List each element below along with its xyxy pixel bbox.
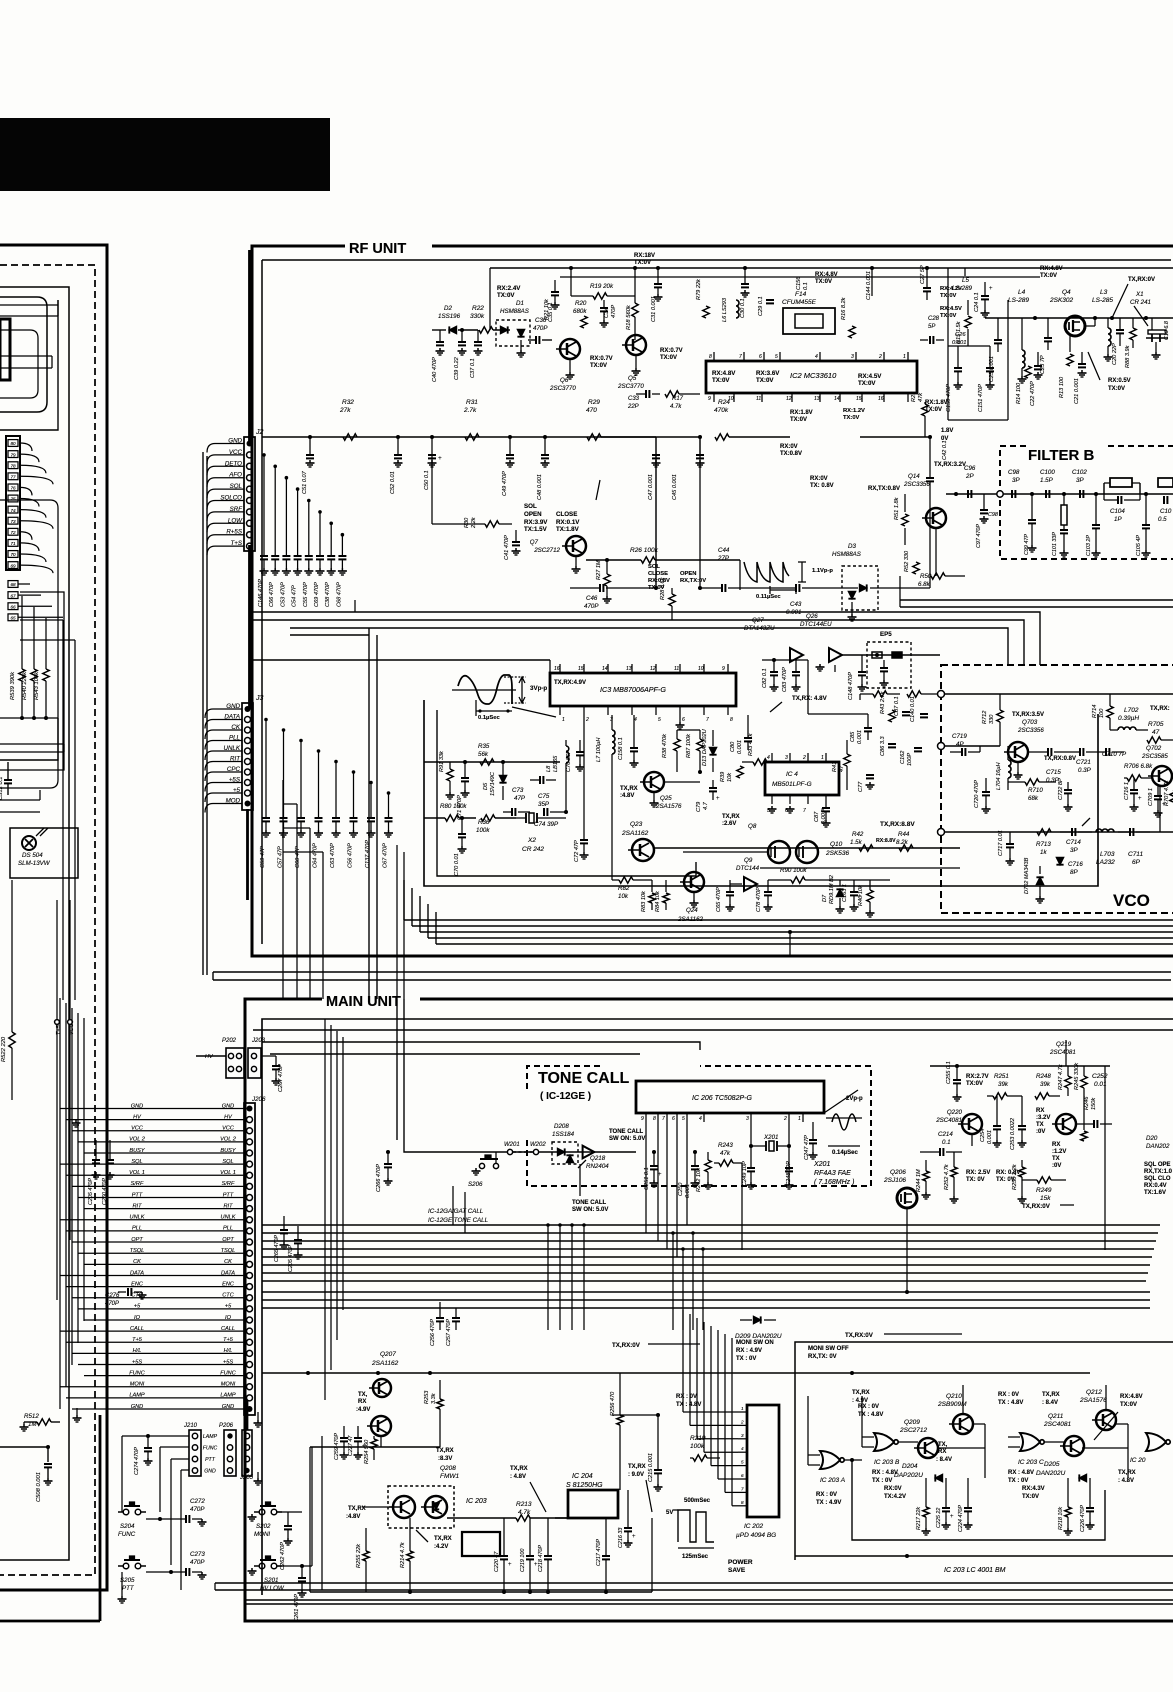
- svg-text:RX:0.5V: RX:0.5V: [1108, 378, 1131, 384]
- switch S202 MONI: [259, 1509, 265, 1515]
- wire H/L: [72, 1352, 244, 1354]
- svg-text:0.001: 0.001: [857, 730, 863, 744]
- wire: [55, 1020, 60, 1025]
- wire ENC: [66, 1286, 244, 1288]
- ground: [23, 1424, 25, 1427]
- svg-text:39k: 39k: [1040, 1081, 1051, 1088]
- svg-text:14: 14: [602, 666, 608, 672]
- svg-text:16: 16: [554, 666, 560, 672]
- svg-text:C709 1: C709 1: [1148, 788, 1154, 806]
- svg-text:Q703: Q703: [1022, 719, 1038, 726]
- svg-text:66: 66: [10, 604, 16, 609]
- svg-text:TX : 0V: TX : 0V: [872, 1478, 892, 1484]
- svg-text:10k: 10k: [618, 893, 629, 900]
- svg-text:15: 15: [856, 396, 862, 402]
- svg-text:VOL 1: VOL 1: [220, 1170, 236, 1176]
- wire: [207, 489, 215, 498]
- svg-text:SW ON: 5.0V: SW ON: 5.0V: [572, 1207, 608, 1213]
- svg-text:47: 47: [1152, 729, 1160, 736]
- svg-text:C59 47P: C59 47P: [260, 846, 266, 868]
- svg-text:100k: 100k: [476, 827, 490, 834]
- svg-text:125mSec: 125mSec: [682, 1554, 709, 1560]
- svg-text:2SC3770: 2SC3770: [549, 385, 576, 392]
- svg-text:D2: D2: [444, 305, 452, 312]
- svg-text:C719: C719: [952, 733, 967, 740]
- resistor R15 1.5k: [965, 316, 971, 328]
- svg-text:13: 13: [814, 396, 820, 402]
- MAIN UNIT border: [245, 999, 1173, 1621]
- wire PLL: [66, 1230, 244, 1232]
- svg-text:RX : 0V: RX : 0V: [998, 1392, 1019, 1398]
- wire: [762, 659, 808, 661]
- svg-text:IC 204: IC 204: [572, 1473, 593, 1480]
- svg-text:RX:4.5V: RX:4.5V: [858, 373, 882, 380]
- svg-text:RX:3.6V: RX:3.6V: [756, 370, 780, 377]
- svg-text:C227 47: C227 47: [348, 1435, 354, 1456]
- svg-text:11: 11: [756, 396, 761, 402]
- svg-text:1: 1: [903, 354, 906, 360]
- svg-text::8.3V: :8.3V: [438, 1456, 452, 1462]
- wire: [205, 783, 213, 792]
- svg-text:TX,RX:0V: TX,RX:0V: [1128, 277, 1155, 283]
- svg-text:7: 7: [662, 1116, 665, 1122]
- svg-text:RX : 0V: RX : 0V: [816, 1492, 837, 1498]
- svg-text:C137 470P: C137 470P: [365, 840, 371, 868]
- svg-text:RX:0V: RX:0V: [780, 444, 798, 450]
- svg-text:0.1: 0.1: [803, 282, 809, 290]
- svg-text:C148 470P: C148 470P: [848, 672, 854, 700]
- ground: [251, 1514, 253, 1517]
- svg-text:UNLK: UNLK: [221, 1215, 236, 1221]
- svg-text:R18 560k: R18 560k: [626, 304, 632, 330]
- svg-text:IC 202: IC 202: [744, 1523, 764, 1530]
- svg-text:CALL: CALL: [221, 1326, 235, 1332]
- svg-text:C254: C254: [980, 1129, 986, 1142]
- svg-text:RX:4.3V: RX:4.3V: [1022, 1486, 1045, 1492]
- svg-text:47k: 47k: [720, 1150, 731, 1157]
- svg-text:C28: C28: [928, 316, 940, 322]
- svg-text:3Vp-p: 3Vp-p: [530, 685, 547, 692]
- svg-text:R705: R705: [1148, 721, 1164, 728]
- filter ladder wire: [997, 491, 1003, 497]
- wire: [205, 772, 213, 781]
- svg-text:: 8.4V: : 8.4V: [1042, 1400, 1058, 1406]
- svg-text:C86 3.3: C86 3.3: [880, 736, 886, 756]
- svg-text:R712: R712: [982, 710, 988, 724]
- wire TSQL: [78, 1252, 244, 1254]
- wire bottom rail: [310, 1591, 652, 1593]
- svg-text:DS 504: DS 504: [22, 852, 43, 859]
- svg-text:CK: CK: [133, 1259, 141, 1265]
- svg-text:VOL 1: VOL 1: [129, 1170, 145, 1176]
- svg-text:RX,TX:0V: RX,TX:0V: [680, 578, 706, 584]
- svg-text:R246: R246: [1084, 1096, 1090, 1110]
- wire row: [262, 436, 656, 438]
- svg-text:C220 47: C220 47: [494, 1551, 500, 1572]
- wire: [739, 560, 741, 590]
- wire: [20, 532, 32, 540]
- svg-text:Q220: Q220: [947, 1109, 963, 1116]
- svg-text:C42 0.1: C42 0.1: [942, 440, 948, 460]
- wire: [214, 1583, 216, 1590]
- IC202 pins: [738, 1411, 747, 1413]
- wire: [18, 605, 52, 607]
- capacitor C42 0.1: [929, 437, 931, 478]
- svg-text:TX:0V: TX:0V: [1040, 273, 1057, 279]
- svg-text:+: +: [438, 455, 442, 462]
- svg-text:C87 0.1: C87 0.1: [894, 696, 900, 716]
- svg-text:C19 6.8: C19 6.8: [1164, 321, 1170, 340]
- switch S201 HI/LOW: [259, 1563, 265, 1569]
- svg-text:+: +: [716, 796, 720, 802]
- wire: [20, 510, 46, 518]
- NOR gate IC203 D partial: [1146, 1433, 1166, 1451]
- svg-text:C41 470P: C41 470P: [504, 535, 510, 560]
- wire GND: [60, 1108, 244, 1110]
- svg-text:R29: R29: [588, 399, 600, 406]
- svg-text:L704 16µH: L704 16µH: [996, 762, 1002, 790]
- svg-text:C22 470P: C22 470P: [1030, 381, 1036, 406]
- svg-text:R245 330k: R245 330k: [1074, 1062, 1080, 1090]
- svg-text:LAMP: LAMP: [129, 1393, 145, 1399]
- svg-text:Q6: Q6: [560, 377, 569, 384]
- wire: [207, 466, 215, 475]
- wire: [18, 594, 41, 596]
- svg-text:RX: RX: [358, 1399, 366, 1405]
- svg-text:C10: C10: [1160, 508, 1172, 515]
- wire: [253, 659, 550, 661]
- svg-text:R19 20k: R19 20k: [590, 283, 614, 290]
- svg-text:D20: D20: [1146, 1135, 1158, 1142]
- svg-text:8: 8: [730, 717, 733, 723]
- svg-text:C43: C43: [790, 601, 802, 608]
- svg-text:C158 0.1: C158 0.1: [618, 737, 624, 760]
- svg-text:R251: R251: [994, 1073, 1009, 1080]
- svg-text:C31 0.001: C31 0.001: [651, 296, 657, 322]
- transistor Q221 2SC4081: [1056, 1114, 1076, 1134]
- wire: [205, 793, 213, 802]
- svg-text:2: 2: [740, 1419, 744, 1424]
- IC203 box: [462, 1532, 500, 1556]
- svg-text:2SC2712: 2SC2712: [899, 1427, 927, 1434]
- svg-text:R543 100k: R543 100k: [34, 671, 40, 700]
- wire: [699, 437, 701, 588]
- resistor R539 390k: [19, 669, 25, 681]
- capacitor C261 470P: [301, 1566, 303, 1578]
- resistor R18 560k: [632, 303, 638, 317]
- svg-text:9: 9: [641, 1116, 644, 1122]
- svg-text:2SC3585: 2SC3585: [1141, 753, 1168, 760]
- svg-text:C82 0.1: C82 0.1: [762, 668, 768, 688]
- svg-text:C250: C250: [678, 1182, 684, 1196]
- bus wires bottom: [215, 1582, 1173, 1584]
- svg-text:HV: HV: [205, 1054, 214, 1060]
- svg-text:TX,RX:3.2V: TX,RX:3.2V: [934, 462, 966, 468]
- svg-text:CFUM455E: CFUM455E: [782, 299, 817, 306]
- svg-text:TX,RX:4.9V: TX,RX:4.9V: [554, 680, 586, 686]
- capacitor C265 470P: [283, 1216, 285, 1230]
- svg-text:R540 220k: R540 220k: [22, 671, 28, 700]
- RF inner top rail: [490, 267, 1173, 269]
- svg-text:R83 10k: R83 10k: [641, 890, 647, 912]
- svg-text:S/RF: S/RF: [222, 1181, 235, 1187]
- svg-text::3.2V: :3.2V: [1036, 1115, 1050, 1121]
- IC2 pins top: [713, 352, 715, 361]
- svg-text:SAVE: SAVE: [728, 1567, 746, 1574]
- capacitor C156 0.1: [743, 266, 747, 270]
- resistor R14 100: [1025, 366, 1031, 378]
- wire: [808, 713, 868, 715]
- transistor Q24 2SA1162: [684, 872, 704, 892]
- svg-text:GND: GND: [222, 1103, 234, 1109]
- waveform 1.1Vp-p: [744, 562, 789, 582]
- svg-text::2.6V: :2.6V: [722, 821, 736, 827]
- svg-text:TX : 4.9V: TX : 4.9V: [816, 1500, 841, 1506]
- svg-text:R707 4.7k: R707 4.7k: [1164, 779, 1170, 806]
- wire +5: [78, 1308, 244, 1310]
- wire: [677, 729, 700, 731]
- svg-text:0.1µSec: 0.1µSec: [478, 715, 500, 721]
- svg-text:4P: 4P: [956, 741, 964, 748]
- wire: [205, 730, 213, 739]
- svg-text:X1: X1: [1135, 291, 1144, 298]
- capacitor C49 470P: [509, 437, 511, 455]
- capacitor C144 0.001: [870, 266, 874, 270]
- svg-text:C261 470P: C261 470P: [294, 1594, 300, 1622]
- svg-text:HI/ LOW: HI/ LOW: [260, 1585, 285, 1592]
- svg-text:TX:0V: TX:0V: [590, 363, 607, 369]
- svg-text:470P: 470P: [533, 325, 548, 332]
- svg-text:TX,RX:: TX,RX:: [1150, 706, 1170, 712]
- svg-text:µPD 4094 BG: µPD 4094 BG: [736, 1532, 776, 1539]
- svg-text:D5: D5: [483, 782, 489, 790]
- svg-text:( IC-12GE ): ( IC-12GE ): [540, 1091, 591, 1102]
- wire bundle left of J206: [59, 998, 61, 1409]
- svg-text:C101 33P: C101 33P: [1052, 532, 1058, 556]
- TONE CALL dashed box: [527, 1066, 600, 1093]
- svg-text:8P: 8P: [1070, 869, 1078, 876]
- VCO dashed box: [941, 665, 1173, 913]
- svg-text:7: 7: [706, 717, 709, 723]
- svg-text:R35: R35: [478, 743, 490, 750]
- resistor R88 3.9k: [1130, 328, 1136, 340]
- svg-text:Q207: Q207: [380, 1351, 396, 1358]
- wire: [795, 1555, 1173, 1557]
- svg-text:D209 DAN202U: D209 DAN202U: [735, 1333, 782, 1340]
- svg-text:RX:2.4V: RX:2.4V: [497, 285, 521, 292]
- capacitor C48 0.001: [544, 437, 546, 455]
- svg-text:C40 470P: C40 470P: [432, 357, 438, 382]
- svg-text:C218 470P: C218 470P: [538, 1545, 544, 1572]
- svg-text:2: 2: [585, 717, 589, 723]
- svg-text:TX,: TX,: [358, 1392, 368, 1398]
- svg-text:C73: C73: [512, 787, 524, 794]
- svg-text:79: 79: [10, 452, 16, 457]
- svg-text:EP5: EP5: [880, 631, 892, 638]
- wire: [859, 694, 861, 700]
- svg-text:1: 1: [821, 755, 824, 761]
- wire drops IC206: [645, 1122, 647, 1233]
- svg-text:IC 206 TC5082P-G: IC 206 TC5082P-G: [692, 1095, 752, 1102]
- wire CALL: [60, 1330, 244, 1332]
- svg-text:C163 1: C163 1: [842, 884, 848, 902]
- svg-text:C146 470P: C146 470P: [258, 579, 264, 607]
- svg-text:TX:0V: TX:0V: [712, 377, 730, 384]
- svg-text:C50 0.1: C50 0.1: [424, 470, 430, 490]
- wire: [205, 762, 213, 771]
- left unit dashed inner border: [0, 265, 95, 1575]
- svg-text:R26 100k: R26 100k: [630, 547, 659, 554]
- capacitor C105 4P: [1144, 492, 1148, 496]
- wire loop bottom: [852, 1460, 1105, 1540]
- svg-text:CLOSE: CLOSE: [556, 511, 577, 518]
- svg-text:8: 8: [709, 354, 712, 360]
- svg-text:RX:0.1V: RX:0.1V: [556, 519, 580, 526]
- svg-text:3: 3: [741, 1433, 744, 1438]
- svg-text:PTT: PTT: [132, 1192, 143, 1198]
- svg-text:D205: D205: [1044, 1461, 1060, 1468]
- svg-text:470P: 470P: [190, 1506, 205, 1513]
- svg-text:7: 7: [739, 354, 742, 360]
- svg-text:1.1Vp-p: 1.1Vp-p: [812, 568, 833, 574]
- svg-text:Q14: Q14: [908, 473, 920, 480]
- svg-text:IC-12GE TONE CALL: IC-12GE TONE CALL: [428, 1217, 489, 1224]
- svg-text:LAMP: LAMP: [203, 1434, 218, 1440]
- svg-text:GND: GND: [131, 1404, 143, 1410]
- svg-text:6: 6: [759, 354, 762, 360]
- wire: [18, 616, 63, 618]
- wire: [205, 741, 213, 750]
- svg-text:MAIN UNIT: MAIN UNIT: [326, 994, 401, 1010]
- capacitor C53 470P: [285, 478, 287, 556]
- svg-text:RIT: RIT: [132, 1203, 142, 1209]
- RF UNIT border: [252, 246, 1173, 956]
- svg-text:C156: C156: [796, 276, 802, 290]
- wire: [20, 487, 32, 495]
- svg-text:150k: 150k: [1091, 1097, 1097, 1110]
- svg-text:C716: C716: [1068, 861, 1083, 868]
- svg-text:CTC: CTC: [222, 1293, 234, 1299]
- svg-text:TX,RX: TX,RX: [620, 786, 638, 792]
- svg-text:C37 0.1: C37 0.1: [470, 358, 476, 378]
- svg-text:68: 68: [10, 582, 16, 587]
- svg-text:2SA1162: 2SA1162: [371, 1360, 399, 1367]
- svg-text:H/L: H/L: [133, 1348, 142, 1354]
- svg-text:R32: R32: [342, 399, 354, 406]
- svg-text:TX,RX: TX,RX: [1118, 1470, 1136, 1476]
- svg-text:D208: D208: [554, 1123, 569, 1130]
- svg-text:R40 10k: R40 10k: [858, 884, 864, 906]
- svg-text:R522 220: R522 220: [1, 1036, 7, 1062]
- capacitor C151 470P: [989, 346, 991, 368]
- svg-text:MONI: MONI: [221, 1382, 236, 1388]
- svg-text:CLOSE: CLOSE: [648, 571, 668, 577]
- svg-text:DAN202: DAN202: [1146, 1143, 1170, 1150]
- svg-text:W202: W202: [530, 1142, 546, 1148]
- svg-text:470: 470: [586, 407, 597, 414]
- svg-text:100P: 100P: [907, 753, 913, 766]
- svg-text:C144 0.001: C144 0.001: [866, 271, 872, 300]
- svg-text:C105 4P: C105 4P: [1136, 535, 1142, 556]
- svg-text:0.001: 0.001: [737, 740, 743, 754]
- svg-text:1: 1: [741, 1406, 744, 1411]
- svg-text:73: 73: [10, 519, 16, 524]
- wire VCC: [72, 1130, 244, 1132]
- svg-text:0.14µSec: 0.14µSec: [832, 1150, 858, 1156]
- svg-text:1SV149C: 1SV149C: [490, 771, 496, 796]
- svg-text:56k: 56k: [478, 751, 489, 758]
- svg-text:470P: 470P: [611, 305, 617, 318]
- svg-text:70: 70: [10, 552, 16, 557]
- wire: [404, 999, 470, 1152]
- svg-text:12: 12: [786, 396, 792, 402]
- wire: [207, 455, 215, 464]
- wire bundle down: [324, 1019, 326, 1400]
- resistor R543 100k: [43, 669, 49, 681]
- svg-text:Q212: Q212: [1086, 1389, 1102, 1396]
- svg-text:MONI SW ON: MONI SW ON: [736, 1340, 774, 1346]
- svg-text:1.5P: 1.5P: [1040, 477, 1054, 484]
- svg-text:C272: C272: [190, 1498, 205, 1505]
- svg-text:+5: +5: [225, 1304, 232, 1310]
- resistor R13 100: [1069, 336, 1071, 352]
- svg-text:0.5: 0.5: [1158, 516, 1167, 523]
- svg-text:OPEN: OPEN: [680, 571, 696, 577]
- svg-text:RX:4.8V: RX:4.8V: [815, 272, 838, 278]
- svg-text:ENC: ENC: [131, 1281, 144, 1287]
- svg-text:Q208: Q208: [440, 1465, 456, 1472]
- wire: [207, 501, 215, 510]
- svg-text:R51 1.8k: R51 1.8k: [894, 496, 900, 520]
- svg-text:D13 DAP202U: D13 DAP202U: [702, 728, 708, 766]
- wire: [207, 535, 215, 544]
- svg-text:S 81250HG: S 81250HG: [566, 1482, 603, 1489]
- svg-text:C48 0.001: C48 0.001: [537, 474, 543, 500]
- svg-text:Q24: Q24: [686, 907, 698, 914]
- svg-text:C508 0.001: C508 0.001: [36, 1472, 42, 1502]
- svg-text:LA232: LA232: [1096, 859, 1115, 866]
- svg-text:RX:3.9V: RX:3.9V: [524, 519, 548, 526]
- svg-text:5P: 5P: [928, 324, 935, 330]
- wire VOL 1: [66, 1174, 244, 1176]
- FILTER B dashed box: [1000, 446, 1173, 559]
- wire: [207, 546, 215, 555]
- svg-text:C70 0.01: C70 0.01: [454, 853, 460, 876]
- svg-text:2SA1576: 2SA1576: [655, 803, 682, 810]
- wire BUSY: [84, 1152, 244, 1154]
- coil L3 symbol: [1108, 328, 1111, 346]
- svg-text:C216 33: C216 33: [618, 1528, 624, 1548]
- svg-text:FUNC: FUNC: [129, 1370, 145, 1376]
- svg-text:C273: C273: [190, 1551, 205, 1558]
- svg-text:7: 7: [803, 808, 806, 814]
- svg-text:C256 470P: C256 470P: [430, 1319, 436, 1346]
- svg-text:RX,TX: 0V: RX,TX: 0V: [808, 1354, 837, 1360]
- wire PTT: [78, 1197, 244, 1199]
- svg-text:2SC4081: 2SC4081: [1049, 1049, 1076, 1056]
- wire: [20, 565, 53, 573]
- svg-text:1: 1: [798, 1116, 801, 1122]
- svg-text:TX: TX: [1036, 1122, 1044, 1128]
- svg-text:2SC2712: 2SC2712: [533, 547, 560, 554]
- svg-text:100: 100: [1099, 708, 1105, 718]
- svg-text:Q26: Q26: [806, 613, 818, 620]
- svg-text:R243: R243: [718, 1142, 733, 1149]
- svg-text:R255 22k: R255 22k: [356, 1543, 362, 1568]
- svg-text:2SC4081: 2SC4081: [935, 1117, 962, 1124]
- capacitor C262 470P: [287, 1512, 289, 1526]
- svg-text:P206: P206: [219, 1423, 234, 1429]
